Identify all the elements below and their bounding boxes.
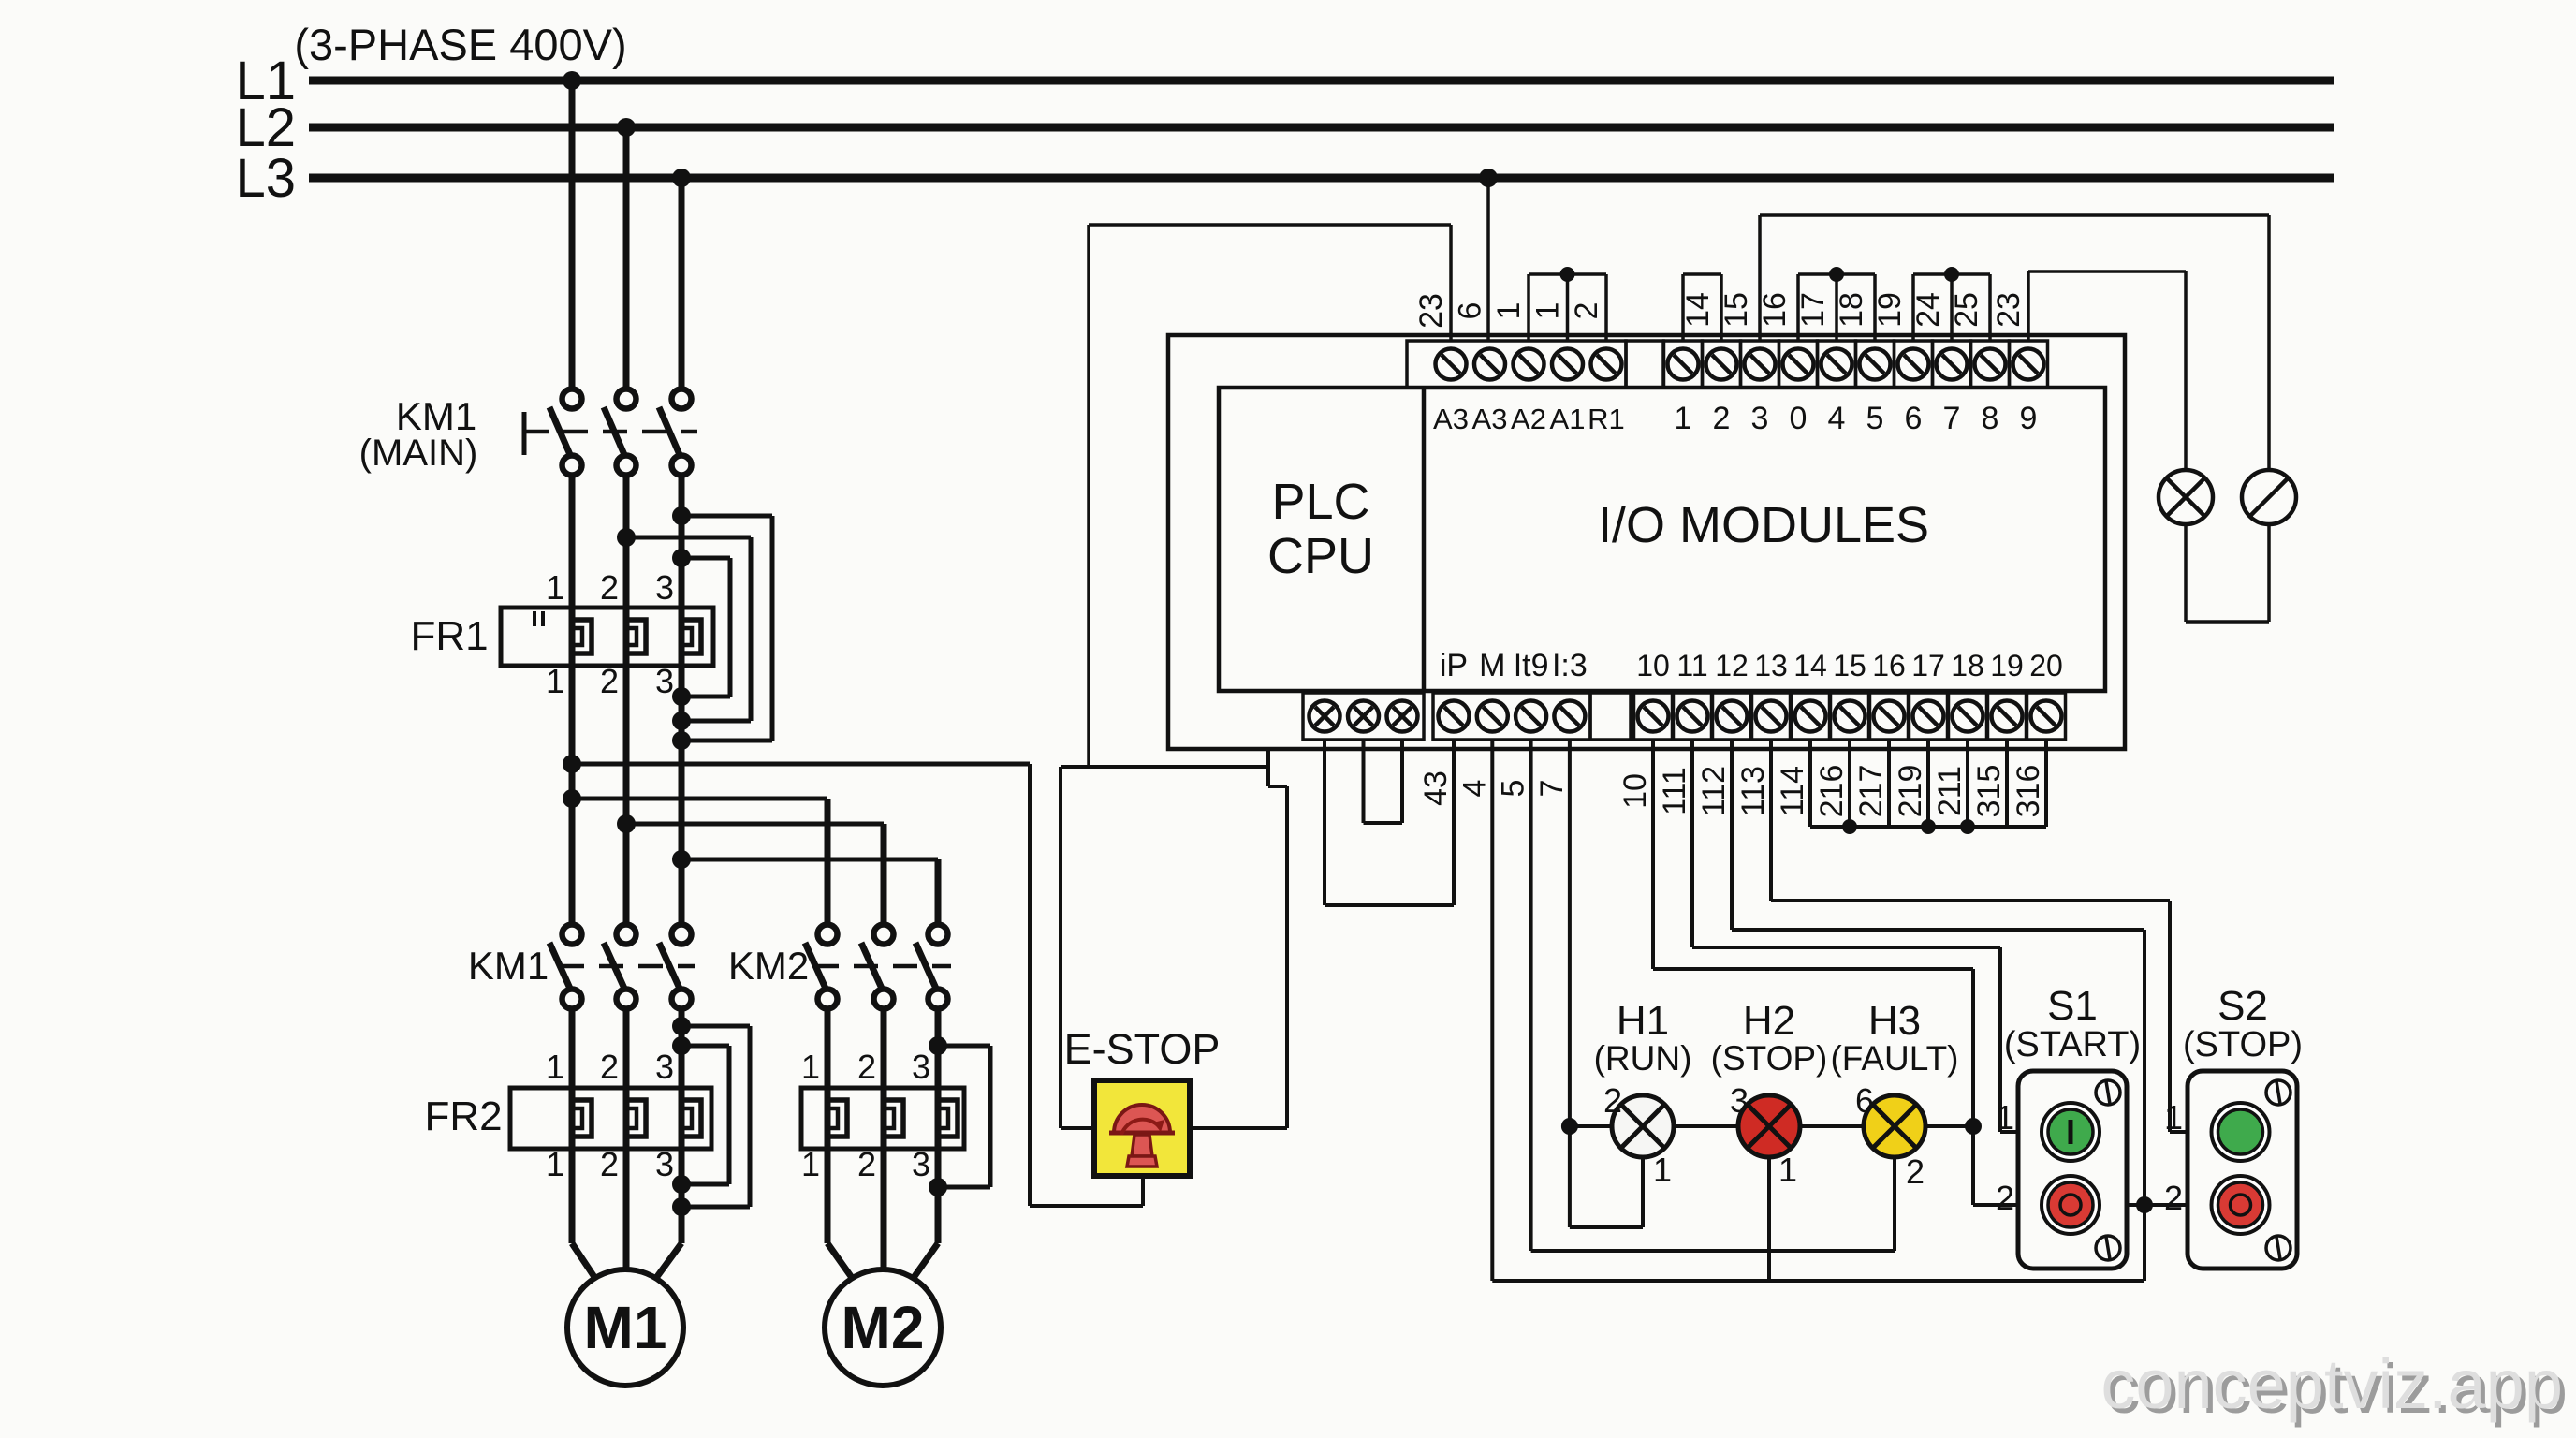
svg-text:19: 19 bbox=[1872, 292, 1908, 328]
svg-text:conceptviz.app: conceptviz.app bbox=[2100, 1345, 2563, 1423]
svg-text:315: 315 bbox=[1971, 765, 2007, 818]
svg-text:316: 316 bbox=[2011, 765, 2046, 818]
svg-text:1: 1 bbox=[1996, 1098, 2014, 1137]
svg-text:KM1: KM1 bbox=[396, 394, 476, 438]
svg-text:1: 1 bbox=[1530, 302, 1566, 320]
svg-text:3: 3 bbox=[655, 662, 674, 700]
svg-text:112: 112 bbox=[1696, 766, 1732, 816]
svg-text:1: 1 bbox=[546, 662, 564, 700]
svg-text:219: 219 bbox=[1893, 765, 1928, 818]
svg-text:7: 7 bbox=[1943, 401, 1961, 436]
svg-text:(FAULT): (FAULT) bbox=[1830, 1039, 1958, 1078]
svg-text:13: 13 bbox=[1754, 649, 1788, 682]
svg-text:6: 6 bbox=[1905, 401, 1923, 436]
svg-text:18: 18 bbox=[1951, 649, 1984, 682]
svg-text:E-STOP: E-STOP bbox=[1064, 1025, 1221, 1073]
svg-text:211: 211 bbox=[1932, 766, 1968, 816]
svg-text:6: 6 bbox=[1855, 1081, 1874, 1120]
svg-text:216: 216 bbox=[1814, 765, 1850, 818]
svg-text:10: 10 bbox=[1617, 773, 1653, 809]
svg-text:11: 11 bbox=[1676, 649, 1707, 682]
svg-text:2: 2 bbox=[1906, 1152, 1925, 1191]
svg-text:8: 8 bbox=[1982, 401, 1999, 436]
svg-text:H1: H1 bbox=[1617, 998, 1669, 1044]
svg-text:2: 2 bbox=[857, 1048, 876, 1086]
svg-text:15: 15 bbox=[1719, 292, 1754, 328]
svg-text:A1: A1 bbox=[1550, 403, 1586, 435]
svg-text:0: 0 bbox=[1790, 401, 1808, 436]
svg-text:43: 43 bbox=[1418, 770, 1454, 806]
svg-text:15: 15 bbox=[1833, 649, 1866, 682]
svg-text:PLC: PLC bbox=[1271, 474, 1369, 530]
svg-text:KM2: KM2 bbox=[728, 944, 809, 988]
svg-text:M1: M1 bbox=[584, 1294, 667, 1361]
svg-text:I/O MODULES: I/O MODULES bbox=[1598, 497, 1929, 553]
svg-text:217: 217 bbox=[1853, 765, 1889, 818]
svg-text:1: 1 bbox=[1653, 1151, 1672, 1189]
svg-text:3: 3 bbox=[1751, 401, 1769, 436]
svg-text:3: 3 bbox=[912, 1145, 930, 1183]
svg-text:(3-PHASE 400V): (3-PHASE 400V) bbox=[294, 20, 626, 69]
svg-text:20: 20 bbox=[2029, 649, 2063, 682]
svg-text:2: 2 bbox=[600, 1145, 619, 1183]
svg-text:1: 1 bbox=[1778, 1151, 1797, 1189]
svg-text:FR1: FR1 bbox=[410, 613, 488, 659]
svg-text:1: 1 bbox=[546, 1145, 564, 1183]
svg-text:3: 3 bbox=[912, 1048, 930, 1086]
svg-text:111: 111 bbox=[1657, 767, 1692, 815]
svg-text:113: 113 bbox=[1735, 766, 1771, 816]
svg-text:3: 3 bbox=[1730, 1081, 1749, 1120]
svg-text:(RUN): (RUN) bbox=[1594, 1039, 1692, 1078]
svg-text:2: 2 bbox=[1569, 302, 1604, 320]
svg-text:17: 17 bbox=[1911, 649, 1945, 682]
svg-text:2: 2 bbox=[600, 568, 619, 607]
svg-text:2: 2 bbox=[1603, 1081, 1622, 1120]
svg-text:S2: S2 bbox=[2217, 983, 2268, 1029]
svg-text:5: 5 bbox=[1496, 780, 1531, 798]
svg-text:iP: iP bbox=[1440, 648, 1468, 683]
svg-text:18: 18 bbox=[1834, 292, 1869, 328]
svg-text:CPU: CPU bbox=[1267, 528, 1374, 584]
svg-text:H2: H2 bbox=[1743, 998, 1795, 1044]
svg-text:1: 1 bbox=[801, 1145, 820, 1183]
svg-text:FR2: FR2 bbox=[424, 1093, 502, 1139]
svg-text:2: 2 bbox=[1713, 401, 1731, 436]
svg-text:(STOP): (STOP) bbox=[2183, 1025, 2303, 1064]
svg-text:10: 10 bbox=[1636, 649, 1670, 682]
svg-text:9: 9 bbox=[2020, 401, 2038, 436]
svg-text:A3: A3 bbox=[1472, 403, 1508, 435]
svg-text:2: 2 bbox=[2164, 1179, 2183, 1217]
svg-text:(START): (START) bbox=[2004, 1025, 2141, 1064]
svg-text:1: 1 bbox=[1491, 302, 1527, 320]
svg-text:5: 5 bbox=[1866, 401, 1884, 436]
svg-text:R1: R1 bbox=[1588, 403, 1625, 435]
svg-text:2: 2 bbox=[600, 1048, 619, 1086]
svg-text:4: 4 bbox=[1456, 780, 1492, 798]
svg-text:KM1: KM1 bbox=[468, 944, 549, 988]
svg-text:(STOP): (STOP) bbox=[1711, 1039, 1828, 1078]
svg-text:16: 16 bbox=[1757, 292, 1793, 328]
svg-text:12: 12 bbox=[1715, 649, 1749, 682]
svg-text:114: 114 bbox=[1775, 766, 1810, 816]
svg-text:3: 3 bbox=[655, 568, 674, 607]
svg-text:3: 3 bbox=[655, 1145, 674, 1183]
svg-text:1: 1 bbox=[2164, 1098, 2183, 1137]
svg-text:23: 23 bbox=[1413, 293, 1449, 329]
svg-text:2: 2 bbox=[857, 1145, 876, 1183]
svg-text:I:3: I:3 bbox=[1552, 648, 1588, 683]
svg-text:A2: A2 bbox=[1511, 403, 1546, 435]
svg-text:M: M bbox=[1479, 648, 1505, 683]
svg-text:L3: L3 bbox=[235, 148, 296, 209]
svg-text:H3: H3 bbox=[1868, 998, 1921, 1044]
svg-text:1: 1 bbox=[546, 568, 564, 607]
svg-text:14: 14 bbox=[1793, 649, 1827, 682]
svg-text:14: 14 bbox=[1680, 292, 1716, 328]
svg-text:17: 17 bbox=[1795, 292, 1831, 328]
svg-text:S1: S1 bbox=[2047, 983, 2098, 1029]
svg-text:6: 6 bbox=[1453, 302, 1488, 320]
svg-text:1: 1 bbox=[801, 1048, 820, 1086]
svg-text:16: 16 bbox=[1872, 649, 1906, 682]
svg-text:2: 2 bbox=[1996, 1179, 2014, 1217]
svg-text:23: 23 bbox=[1991, 292, 2027, 328]
svg-text:19: 19 bbox=[1990, 649, 2024, 682]
svg-text:1: 1 bbox=[546, 1048, 564, 1086]
svg-text:(MAIN): (MAIN) bbox=[359, 433, 478, 474]
svg-text:2: 2 bbox=[600, 662, 619, 700]
svg-text:25: 25 bbox=[1949, 292, 1984, 328]
svg-text:1: 1 bbox=[1675, 401, 1692, 436]
svg-text:3: 3 bbox=[655, 1048, 674, 1086]
svg-text:It9: It9 bbox=[1514, 648, 1549, 683]
svg-text:24: 24 bbox=[1910, 292, 1946, 328]
svg-text:4: 4 bbox=[1828, 401, 1846, 436]
svg-text:7: 7 bbox=[1534, 780, 1570, 798]
svg-text:A3: A3 bbox=[1433, 403, 1469, 435]
svg-text:M2: M2 bbox=[842, 1294, 925, 1361]
